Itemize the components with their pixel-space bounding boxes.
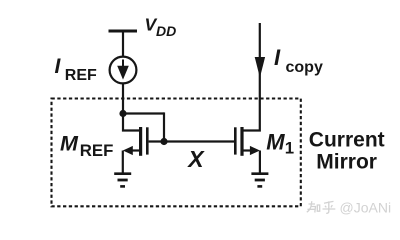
node A junction dot [119, 110, 126, 117]
MREF gate bar [146, 127, 149, 154]
junction dot on node X line [160, 138, 167, 145]
svg-text:M: M [60, 131, 79, 155]
svg-text:@JoANi: @JoANi [340, 199, 392, 215]
dashed box (current mirror boundary) [52, 99, 301, 207]
label Icopy [274, 45, 323, 76]
svg-text:1: 1 [285, 139, 294, 158]
wire VDD bar to current source [122, 32, 124, 57]
Icopy arrowhead on drain wire [255, 57, 265, 78]
current source IREF (circle with down arrow) [110, 57, 137, 84]
知 right box [317, 205, 319, 211]
M1 gate bar [234, 127, 237, 154]
svg-text:M: M [266, 130, 285, 155]
ground (M1) [251, 174, 268, 187]
wire connector down to node X line [163, 112, 165, 141]
svg-text:I: I [274, 45, 281, 70]
svg-text:DD: DD [156, 23, 176, 39]
wire current source to node A [122, 83, 124, 113]
svg-text:Current: Current [309, 128, 385, 151]
label IREF [55, 55, 98, 84]
transistor MREF (diode-connected NMOS, mirrored, gate on right) [123, 112, 148, 172]
watermark 知乎 @JoANi [307, 201, 336, 213]
svg-text:REF: REF [65, 67, 97, 84]
svg-text:REF: REF [80, 141, 114, 160]
svg-text:X: X [186, 146, 205, 172]
ground (MREF) [114, 174, 131, 187]
M1 source lead with arrow [243, 149, 251, 151]
M1 source wire down [259, 151, 261, 173]
wire node A to gate connector (top horizontal) [123, 112, 164, 114]
MREF source lead with arrow [132, 149, 140, 151]
transistor M1 (NMOS, gate on left) [235, 23, 260, 173]
MREF source wire down [122, 151, 124, 173]
MREF drain lead [123, 112, 140, 130]
label M1 [266, 130, 294, 158]
wire node X (gate to gate) [149, 140, 235, 142]
svg-text:Mirror: Mirror [316, 150, 377, 173]
label MREF [60, 131, 113, 159]
label Current Mirror [309, 128, 385, 173]
知 left radical [307, 201, 316, 212]
MREF channel bar [139, 127, 142, 156]
label VDD [145, 15, 177, 40]
M1 drain lead [243, 23, 260, 131]
svg-text:copy: copy [286, 59, 323, 76]
M1 channel bar [240, 127, 243, 156]
乎 strokes [323, 201, 336, 213]
VDD supply bar [109, 30, 138, 33]
